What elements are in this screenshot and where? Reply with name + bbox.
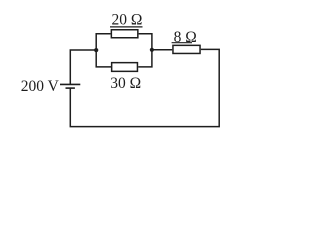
underline under 20 ohm label (110, 26, 143, 28)
node A junction dot (94, 48, 98, 52)
resistor R2 box (30 ohm) (112, 63, 138, 72)
svg-text:30 Ω: 30 Ω (110, 75, 141, 92)
wire: node B to 8-ohm left lead (152, 49, 172, 51)
wire: 20-ohm right lead down to node B (139, 34, 152, 50)
battery positive plate (long) (60, 83, 80, 85)
svg-text:20 Ω: 20 Ω (112, 12, 143, 29)
svg-text:200 V: 200 V (21, 78, 60, 95)
wire: node A up to 20-ohm left lead (96, 34, 110, 50)
wire: node A down to 30-ohm left lead (96, 50, 111, 67)
node B junction dot (150, 48, 154, 52)
underline under 8 ohm label (172, 42, 192, 44)
wire: 8-ohm right lead, right rail, bottom rail to battery negative (70, 49, 219, 126)
wire: 30-ohm right lead up to node B (138, 50, 152, 67)
battery negative plate (short) (66, 87, 75, 89)
wire: left rail from battery positive up and feed to node A (70, 50, 96, 84)
resistor R3 box (8 ohm) (173, 45, 200, 53)
resistor R1 box (20 ohm) (111, 30, 138, 38)
svg-text:8 Ω: 8 Ω (174, 29, 197, 46)
